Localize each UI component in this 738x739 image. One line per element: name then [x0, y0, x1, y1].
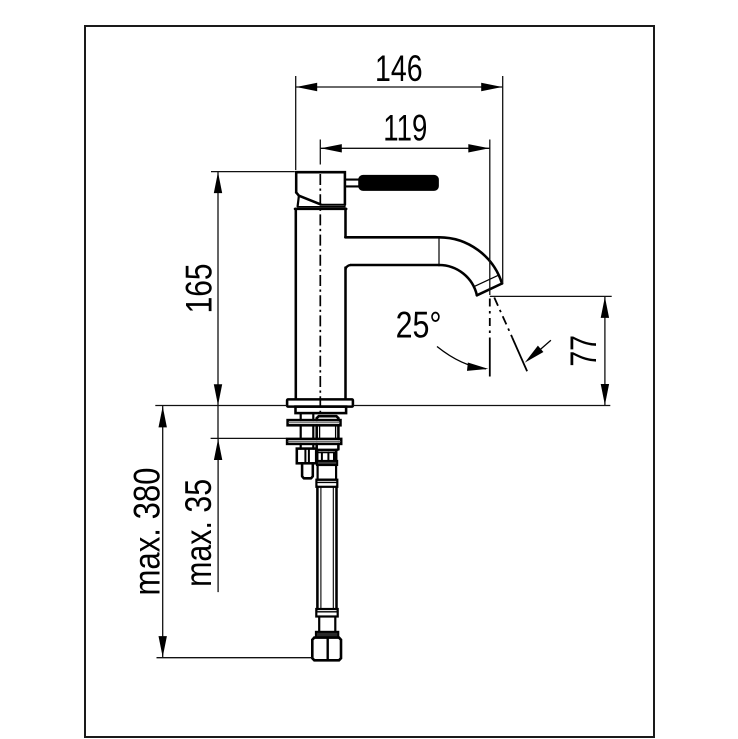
valve body right segments [315, 418, 318, 449]
svg-text:119: 119 [383, 108, 427, 149]
svg-text:25°: 25° [396, 305, 442, 346]
water stream reference: vertical dash-dot then solid [489, 299, 491, 342]
119: dimension line [320, 147, 490, 149]
119: extension lines [319, 140, 321, 165]
spout straight tube [345, 236, 439, 239]
max35 dimension line [217, 438, 219, 592]
dark band above nut [316, 632, 338, 638]
tube joint line [438, 238, 440, 265]
base flange [287, 399, 353, 406]
77 dimension line [604, 296, 606, 405]
sleeve [318, 465, 337, 480]
collar double [316, 480, 337, 487]
svg-text:165: 165 [179, 263, 220, 313]
spout curve inner [439, 265, 477, 295]
165: dimension line [217, 172, 219, 439]
left mounting stud segments [300, 413, 302, 449]
body top edge [295, 208, 346, 211]
handle housing (cartridge cap) [296, 172, 345, 204]
svg-text:146: 146 [375, 48, 423, 89]
hose coupling top band [317, 449, 337, 452]
146: dimension line [296, 86, 503, 88]
svg-text:max. 35: max. 35 [178, 479, 219, 587]
coupling dark band [317, 461, 337, 465]
hose bottom ring [316, 609, 337, 617]
svg-text:max. 380: max. 380 [126, 468, 167, 596]
bottom reference line [157, 657, 313, 659]
25 deg straight arrow tail [529, 340, 551, 359]
washer 2 [287, 439, 341, 444]
aerator joint line [473, 275, 498, 287]
max35 reference line [211, 437, 287, 439]
hex nut left [297, 449, 316, 464]
165: top reference [211, 171, 295, 173]
coupling facet section [317, 451, 336, 453]
shank below flange [296, 407, 347, 414]
border frame [85, 26, 654, 737]
deck line [155, 405, 610, 407]
handle grip (black) [360, 176, 438, 190]
bottom tube [319, 617, 335, 632]
hose end hex nut [312, 638, 341, 661]
max380 dimension line [162, 406, 164, 658]
hose outer walls [316, 487, 319, 609]
svg-text:77: 77 [563, 335, 604, 367]
lever stem [346, 179, 359, 181]
arrowheads [159, 83, 610, 657]
centerline dash-dot [319, 174, 321, 413]
77 top reference [490, 295, 612, 297]
hose inner walls [320, 487, 322, 609]
146: extension lines [295, 76, 297, 170]
spout end face [477, 284, 502, 296]
cap lower rim line [298, 206, 345, 208]
body column edges [295, 209, 298, 399]
25 deg arc arrow [437, 347, 486, 369]
stud end below nut [302, 463, 313, 478]
spout curve outer [439, 237, 502, 283]
washer 1 [288, 420, 341, 425]
water stream slanted dash-dot then solid (25 deg) [494, 298, 512, 338]
